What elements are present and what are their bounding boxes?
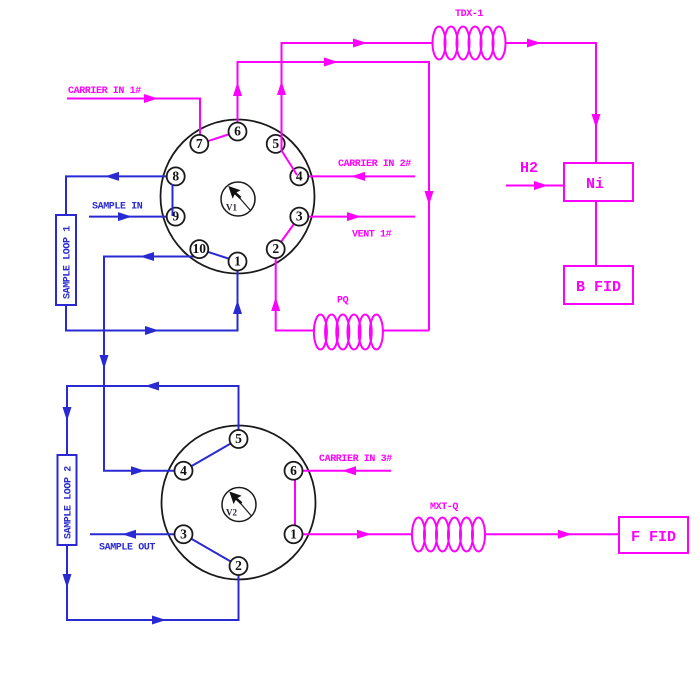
svg-text:SAMPLE IN: SAMPLE IN — [92, 202, 143, 213]
arrow right on sample in wire — [118, 212, 132, 221]
column TDX-1 coil — [433, 27, 506, 60]
arrow left into port 6 V2 — [342, 466, 356, 475]
arrow right into port 4 V2 — [131, 466, 145, 475]
arrow right on vent wire — [347, 212, 361, 221]
sample loop 2 box — [58, 455, 77, 545]
port 5 V2 — [230, 430, 248, 448]
port 4 V2 — [175, 462, 193, 480]
port digits V1 — [172, 124, 303, 269]
arrow right after TDX-1 — [527, 39, 541, 48]
detector B FID box — [564, 266, 633, 304]
wire carrier in 1# inlet to port 7 V1 — [67, 99, 200, 144]
port 4 V1 — [290, 167, 308, 185]
label B FID — [576, 279, 621, 296]
label CARRIER IN 2# — [338, 159, 411, 170]
svg-text:H2: H2 — [520, 160, 538, 177]
label CARRIER IN 3# — [319, 454, 392, 465]
arrow down below loop 2 — [63, 574, 72, 588]
svg-text:PQ: PQ — [337, 296, 349, 307]
port 6 V1 — [229, 123, 247, 141]
rotor link 2-3 V1 — [276, 217, 300, 250]
rotor link 3-2 V2 — [184, 534, 239, 566]
arrow right before F FID — [558, 530, 572, 539]
arrow left on sample out wire — [122, 530, 136, 539]
label Ni — [586, 176, 604, 193]
valve V1 body circle — [161, 120, 315, 274]
port 6 V2 — [285, 462, 303, 480]
rotor link 10-1 V1 — [199, 249, 237, 261]
svg-text:1: 1 — [234, 254, 241, 269]
svg-text:V1: V1 — [226, 203, 237, 213]
svg-text:9: 9 — [172, 209, 179, 224]
arrow right before MXT-Q — [357, 530, 371, 539]
svg-text:MXT-Q: MXT-Q — [430, 502, 458, 513]
wire MXT-Q to F FID — [484, 533, 619, 535]
svg-text:SAMPLE OUT: SAMPLE OUT — [99, 543, 155, 554]
rotor link 4-5 V1 — [282, 151, 298, 176]
svg-text:3: 3 — [180, 526, 187, 541]
port 5 V1 — [267, 135, 285, 153]
wire PQ to port 2 V1 — [276, 249, 314, 330]
wire port 5 V2 up left to sample loop 2 — [67, 386, 239, 455]
arrow up into port 2 V1 — [271, 297, 280, 311]
wire port 5 V1 up to TDX-1 column — [282, 43, 434, 151]
port 10 V1 — [190, 240, 208, 258]
rotor link 7-6 V1 — [199, 132, 237, 144]
wire port 3 V2 to sample out — [90, 533, 184, 535]
port 3 V1 — [290, 208, 308, 226]
label VENT 1# — [352, 230, 392, 241]
arrow up on port 5 riser — [277, 81, 286, 95]
svg-text:CARRIER IN 1#: CARRIER IN 1# — [68, 86, 141, 97]
svg-text:F FID: F FID — [631, 529, 676, 546]
svg-text:VENT 1#: VENT 1# — [352, 230, 392, 241]
arrow down into sample loop 2 — [63, 407, 72, 421]
converter Ni box — [564, 163, 633, 201]
arrow up on port 6 riser — [233, 82, 242, 96]
rotor link 5-4 V2 — [184, 439, 239, 471]
svg-text:SAMPLE LOOP 2: SAMPLE LOOP 2 — [64, 466, 75, 539]
arrow right on y62 run — [324, 58, 338, 67]
wire H2 inlet — [506, 185, 564, 187]
arrow right before TDX-1 — [353, 39, 367, 48]
label SAMPLE LOOP 1 — [63, 226, 74, 299]
valve V2 ports — [175, 430, 303, 575]
rotor link 8-9 V1 — [172, 184, 174, 216]
port 3 V2 — [175, 525, 193, 543]
svg-text:4: 4 — [296, 168, 303, 183]
wire port 3 V1 to vent 1# — [299, 216, 415, 218]
port 1 V1 — [229, 253, 247, 271]
svg-text:3: 3 — [296, 209, 303, 224]
arrow right on loop1 bottom run — [145, 326, 159, 335]
wire carrier in 3# to port 6 V2 — [294, 470, 392, 472]
svg-text:SAMPLE LOOP 1: SAMPLE LOOP 1 — [63, 226, 74, 299]
sample loop 1 box — [56, 215, 76, 305]
wire Ni to B FID — [595, 201, 597, 266]
arrow down on x104 drop — [100, 355, 109, 369]
arrow down on x429 drop — [425, 191, 434, 205]
wire sample loop 1 to port 1 V1 — [66, 262, 238, 331]
label SAMPLE LOOP 2 — [64, 466, 75, 539]
svg-text:5: 5 — [235, 431, 242, 446]
rotor link 6-1 V2 — [294, 471, 296, 535]
arrow right on y620 run — [152, 616, 166, 625]
label SAMPLE IN — [92, 202, 143, 213]
svg-text:CARRIER IN 2#: CARRIER IN 2# — [338, 159, 411, 170]
wire port 6 V1 up right and down to PQ column — [238, 62, 430, 331]
svg-text:6: 6 — [290, 463, 297, 478]
label F FID — [631, 529, 676, 546]
arrow down into Ni — [592, 114, 601, 128]
port 2 V1 — [267, 240, 285, 258]
svg-text:B FID: B FID — [576, 279, 621, 296]
svg-text:6: 6 — [234, 124, 241, 139]
port 1 V2 — [285, 525, 303, 543]
valve V2 hub — [222, 488, 256, 522]
port 2 V2 — [230, 557, 248, 575]
svg-text:V2: V2 — [226, 508, 237, 518]
arrow left on port 8 wire — [105, 172, 119, 181]
label MXT-Q — [430, 502, 458, 513]
port 9 V1 — [167, 208, 185, 226]
svg-text:4: 4 — [180, 463, 187, 478]
port 8 V1 — [167, 167, 185, 185]
valve V1 hub — [221, 182, 255, 216]
column PQ coil — [314, 315, 383, 350]
arrow up into port 1 V1 — [233, 300, 242, 314]
label PQ — [337, 296, 349, 307]
svg-text:7: 7 — [196, 136, 203, 151]
label TDX-1 — [455, 9, 483, 20]
svg-text:TDX-1: TDX-1 — [455, 9, 483, 20]
wire PQ column right link — [383, 330, 429, 332]
port digits V2 — [180, 431, 297, 573]
arrow left into port 4 V1 — [351, 172, 365, 181]
wire sample in to port 9 V1 — [89, 216, 176, 218]
wire port 8 V1 to sample loop 1 — [66, 176, 176, 215]
wire sample loop 2 to port 2 V2 — [67, 545, 239, 620]
valve V2 body circle — [162, 426, 316, 580]
svg-text:10: 10 — [193, 241, 207, 256]
label H2 — [520, 160, 538, 177]
svg-text:2: 2 — [272, 241, 279, 256]
svg-text:5: 5 — [272, 136, 279, 151]
arrow left on port 10 wire — [140, 252, 154, 261]
port 7 V1 — [190, 135, 208, 153]
svg-text:Ni: Ni — [586, 176, 604, 193]
wire TDX-1 to Ni converter — [505, 43, 596, 163]
wire port 1 V2 to MXT-Q — [294, 533, 413, 535]
valve V1 ports — [167, 123, 309, 271]
wire port 10 V1 down to port 4 V2 — [104, 257, 199, 471]
svg-text:8: 8 — [172, 168, 179, 183]
arrow right on H2 wire — [534, 181, 548, 190]
svg-text:2: 2 — [235, 558, 242, 573]
label CARRIER IN 1# — [68, 86, 141, 97]
wire carrier in 2# to port 4 V1 — [299, 175, 415, 177]
svg-text:1: 1 — [290, 526, 297, 541]
label SAMPLE OUT — [99, 543, 155, 554]
detector F FID box — [619, 517, 688, 553]
column MXT-Q coil — [412, 518, 485, 552]
arrow left on y386 run — [145, 382, 159, 391]
arrow on carrier in 1# wire — [144, 94, 158, 103]
svg-text:CARRIER IN 3#: CARRIER IN 3# — [319, 454, 392, 465]
